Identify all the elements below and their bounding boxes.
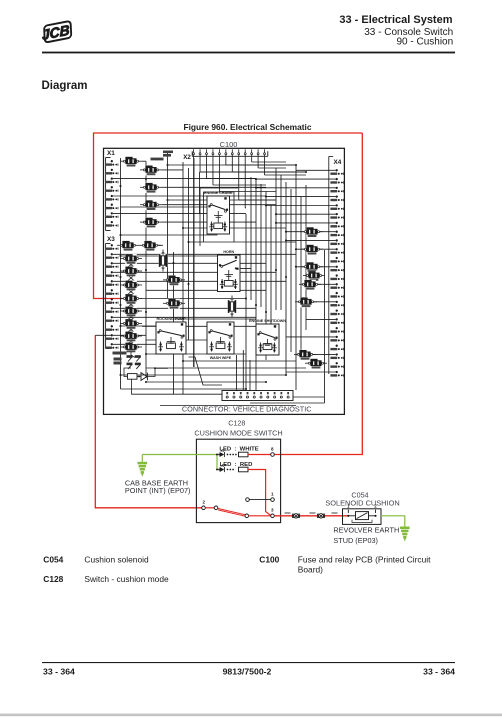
svg-text:HORN: HORN xyxy=(223,250,234,254)
connector X3 xyxy=(105,236,118,349)
fuse F3 xyxy=(140,183,162,193)
svg-text:X3: X3 xyxy=(107,236,115,243)
connector X4 xyxy=(329,156,344,376)
fuse F4 xyxy=(140,200,162,210)
bottom grey bar xyxy=(0,714,502,717)
fuse F20 xyxy=(303,271,325,281)
fuse F19 xyxy=(301,262,323,272)
wire label B04-R a xyxy=(285,512,291,514)
label S23 B+1 xyxy=(163,151,173,154)
switch pin 2 and lever xyxy=(202,499,249,517)
fuse F10 xyxy=(120,266,142,276)
fuse F8 xyxy=(139,241,161,251)
PCB outer box C100 xyxy=(104,148,345,414)
fuse F1 xyxy=(120,157,142,167)
svg-text:8: 8 xyxy=(271,446,274,451)
svg-text:REVOLVER EARTH: REVOLVER EARTH xyxy=(333,526,399,535)
svg-text:Diagram: Diagram xyxy=(42,80,88,92)
svg-text:WASH WIPE: WASH WIPE xyxy=(210,356,232,360)
wires X4 row links xyxy=(256,170,336,372)
component K2 xyxy=(228,296,237,318)
footer rule xyxy=(42,662,455,663)
svg-text:ROCKING PUMP: ROCKING PUMP xyxy=(156,317,186,321)
svg-text:ENGINE CRANK: ENGINE CRANK xyxy=(204,191,233,195)
ground EP03 revolver earth xyxy=(400,527,410,542)
fuse F12 xyxy=(120,294,142,304)
svg-text:2: 2 xyxy=(203,499,206,504)
wires vertical bus bundle xyxy=(121,152,325,403)
solenoid C054 xyxy=(343,503,382,524)
fuse F18 xyxy=(301,245,323,255)
header rule xyxy=(42,52,455,54)
svg-text:CUSHION MODE SWITCH: CUSHION MODE SWITCH xyxy=(194,428,282,437)
svg-text:33 - 364: 33 - 364 xyxy=(43,667,75,677)
fuse F17 xyxy=(301,227,323,237)
svg-text:9813/7500-2: 9813/7500-2 xyxy=(223,667,272,677)
wire green LED feed xyxy=(142,454,196,456)
svg-text:3: 3 xyxy=(271,508,274,513)
svg-text:C054: C054 xyxy=(43,554,63,564)
wire red LED white to pin 8 xyxy=(248,454,272,456)
wire black stub at X3 exit xyxy=(95,334,112,336)
svg-text:X4: X4 xyxy=(334,159,342,166)
fuse F13 xyxy=(120,306,142,316)
fuse F14 xyxy=(120,319,142,329)
ground EP07 cab base earth xyxy=(138,462,148,477)
component K1 xyxy=(159,250,168,272)
svg-text:SOLENOID CUSHION: SOLENOID CUSHION xyxy=(325,498,399,507)
connector X2 xyxy=(183,149,268,161)
relay WASH WIPE xyxy=(207,322,234,360)
relay ENGINE SHUTDOWN xyxy=(249,319,286,355)
wire horn right exit xyxy=(240,268,251,270)
LED white row xyxy=(216,447,259,458)
wire red LED red to pin 3 xyxy=(248,470,271,516)
wires X2 drop bundle xyxy=(194,158,306,367)
wire label B04-R c xyxy=(332,512,338,514)
svg-text:33 - 364: 33 - 364 xyxy=(423,667,455,677)
fuse F23 xyxy=(294,350,316,360)
fuse F25 xyxy=(163,275,185,285)
fuse F16 xyxy=(120,342,142,352)
svg-text:1: 1 xyxy=(271,491,274,496)
switch pin 1 contact xyxy=(246,491,275,501)
fuse F11 xyxy=(120,280,142,290)
fuse F21 xyxy=(299,280,321,290)
svg-text:Figure 960. Electrical Schemat: Figure 960. Electrical Schematic xyxy=(183,122,311,132)
wire loop around engine crank relay xyxy=(200,188,238,246)
svg-text:C128: C128 xyxy=(43,574,63,584)
wire red switch pin3 to solenoid xyxy=(274,515,348,517)
fuse F2 xyxy=(140,165,162,175)
relay HORN xyxy=(218,250,241,291)
svg-text:33 - Electrical System: 33 - Electrical System xyxy=(339,14,452,26)
switch box C128 xyxy=(196,439,280,522)
svg-text:STUD (EP03): STUD (EP03) xyxy=(333,536,378,545)
label S23 block xyxy=(114,358,122,361)
wires horizontal bundle xyxy=(113,161,306,405)
label 20A : WB xyxy=(151,158,164,161)
wire label B04-R b xyxy=(310,512,316,514)
relay ROCKING PUMP xyxy=(156,317,186,354)
wire red highlight right side to switch pin 8 xyxy=(274,133,363,455)
fuse F9 xyxy=(120,254,142,264)
fuse F7 xyxy=(117,241,139,251)
svg-text:X1: X1 xyxy=(107,150,115,157)
svg-text:C100: C100 xyxy=(259,554,279,564)
fuse F15 xyxy=(120,331,142,341)
svg-text:Board): Board) xyxy=(298,564,323,574)
JCB logo xyxy=(39,21,73,43)
wire X3 fuse chain links xyxy=(127,262,136,344)
wire red highlight frame top/left to X3 fuse xyxy=(94,133,363,299)
wire green solenoid to earth xyxy=(381,516,405,527)
svg-text:Switch - cushion mode: Switch - cushion mode xyxy=(84,574,169,584)
svg-text:X2: X2 xyxy=(183,154,191,161)
wires diagnostic connector feeds xyxy=(189,350,325,403)
label 20A : WB lower xyxy=(113,352,127,355)
connector vehicle diagnostic xyxy=(222,391,293,401)
svg-text:POINT (INT) (EP07): POINT (INT) (EP07) xyxy=(125,486,191,495)
relay ENGINE CRANK xyxy=(204,191,233,234)
LED red row xyxy=(216,462,252,472)
fuse F26 xyxy=(163,299,185,309)
svg-text:90 - Cushion: 90 - Cushion xyxy=(396,37,453,48)
svg-text:CONNECTOR: VEHICLE DIAGNOSTIC: CONNECTOR: VEHICLE DIAGNOSTIC xyxy=(182,405,312,414)
svg-text:ENGINE SHUTDOWN: ENGINE SHUTDOWN xyxy=(249,319,286,323)
connector X1 xyxy=(105,150,118,230)
diode-resistor network xyxy=(124,352,222,394)
fuse F22 xyxy=(295,297,317,307)
fuse F6 xyxy=(140,218,162,228)
svg-text:C100: C100 xyxy=(220,140,238,149)
svg-text:C128: C128 xyxy=(228,419,245,428)
fuse F24 xyxy=(305,359,327,369)
svg-text:Fuse and relay PCB (Printed Ci: Fuse and relay PCB (Printed Circuit xyxy=(298,554,431,564)
svg-text:Cushion solenoid: Cushion solenoid xyxy=(84,554,149,564)
junction dots xyxy=(119,164,307,390)
wire red from X3 pin to switch pin 2 xyxy=(95,335,202,508)
